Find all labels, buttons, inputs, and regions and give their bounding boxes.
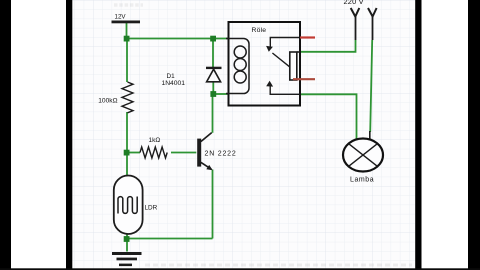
wire: 220V line 2 down to lamp right terminal — [370, 40, 372, 132]
wire: +12V rail to relay coil top pin — [127, 38, 229, 40]
plug fork 1 — [351, 8, 360, 17]
relay pin NC top (red, unconnected) — [300, 36, 315, 38]
NC contact arm — [270, 38, 299, 47]
resistor R1 100kΩ (vertical) — [98, 82, 133, 113]
node: diode / coil / collector junction — [210, 91, 216, 97]
relay pin NC bottom (red, unconnected) — [293, 78, 315, 80]
coil loop 2 — [234, 59, 246, 71]
coil bobbin outline — [226, 39, 249, 94]
svg-text:2N 2222: 2N 2222 — [205, 151, 237, 158]
plug fork 2 — [368, 8, 377, 17]
wire: node down to transistor collector — [212, 94, 214, 133]
svg-text:Lamba: Lamba — [350, 177, 374, 184]
svg-text:D1: D1 — [167, 73, 176, 80]
wire: diode D1 to coil-bottom node — [212, 82, 214, 94]
switch blade — [272, 53, 289, 67]
wire: node to relay coil bottom pin — [213, 93, 228, 95]
wire: 220V line 1 pin lead (black) — [355, 17, 357, 41]
wire: 12V stub down to rail node — [126, 23, 128, 39]
svg-text:12V: 12V — [115, 14, 127, 21]
diode D1 1N4001 (flyback) — [162, 67, 222, 87]
svg-text:LDR: LDR — [145, 205, 158, 212]
node: rail junction at 12V — [124, 36, 130, 42]
lamp (Lamba) — [343, 139, 383, 184]
wire: base node to resistor R2 — [127, 152, 140, 154]
wire: LDR bottom to ground — [126, 234, 128, 252]
NO contact arm — [270, 86, 299, 95]
schematic page background with grid — [66, 0, 422, 268]
wire: lamp right terminal stub — [369, 131, 371, 140]
node: rail / diode junction — [210, 36, 216, 42]
power supply 12V symbol — [112, 14, 141, 24]
coil loop 3 — [234, 71, 246, 83]
wire: resistor R2 to transistor base — [171, 152, 196, 154]
common pole bar — [290, 52, 297, 80]
svg-text:1N4001: 1N4001 — [162, 80, 186, 87]
resistor R2 1kΩ (horizontal) — [140, 137, 167, 158]
wire: relay NO pin to lamp left terminal — [299, 94, 357, 139]
relay U1 (Röle) — [226, 22, 300, 106]
wire: transistor emitter down — [212, 170, 214, 239]
ground (earth) symbol — [112, 252, 142, 266]
video frame bars (decorative) — [66, 0, 72, 270]
node: divider / base junction — [124, 150, 130, 156]
faint cut-off caption remnants above bottom bar — [145, 264, 412, 267]
wire: 220V line 2 pin lead (black) — [372, 17, 374, 41]
coil loop 1 — [234, 46, 246, 58]
svg-text:1kΩ: 1kΩ — [149, 137, 161, 144]
220V AC source — [344, 0, 377, 17]
wire: relay common pin to 220V line 1 — [300, 40, 356, 52]
wire: rail junction down to diode D1 — [212, 39, 214, 68]
LDR photoresistor — [114, 176, 158, 235]
svg-text:220 V: 220 V — [344, 0, 364, 6]
wire: emitter run to ground node — [127, 238, 213, 240]
transistor Q1 2N2222 (NPN) — [197, 133, 236, 171]
svg-text:100kΩ: 100kΩ — [98, 98, 117, 105]
wire: left rail down through resistor R1 to LDR — [126, 39, 128, 176]
svg-text:Röle: Röle — [252, 27, 267, 34]
node: LDR / ground junction — [124, 236, 130, 242]
